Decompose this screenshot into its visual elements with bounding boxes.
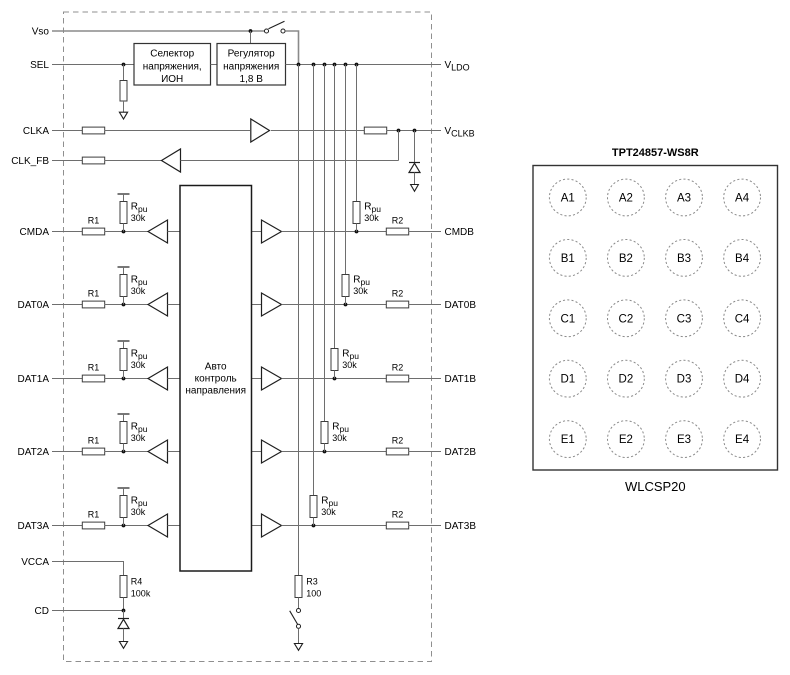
wire SEL lead [52, 64, 134, 66]
junction VLDO rail DAT2B [323, 63, 327, 67]
wire DAT2B line [282, 451, 387, 453]
ball E1 [549, 421, 586, 458]
svg-text:R1: R1 [88, 289, 100, 299]
wire switch S1 to VLDO rail [285, 31, 298, 64]
wire DAT0A to driver [105, 304, 149, 306]
svg-text:R2: R2 [392, 216, 404, 226]
svg-text:E2: E2 [619, 434, 633, 446]
resistor Rpu 30k (DAT2B) [321, 422, 328, 444]
resistor Rpu 30k (DAT3A) [120, 496, 127, 518]
switch S2 contact top [296, 608, 300, 612]
wire resistor to pin VCLKB [387, 130, 442, 132]
supply bar Rpu (DAT0A) [118, 266, 130, 268]
wire CLKA lead [52, 130, 83, 132]
switch S1 blade [269, 21, 285, 29]
wire driver to block (DAT0A) [168, 304, 181, 306]
svg-text:R3: R3 [306, 577, 318, 587]
driver B DAT1B [262, 367, 282, 390]
switch S2 contact bottom [296, 624, 300, 628]
svg-text:C3: C3 [677, 313, 692, 325]
svg-text:100k: 100k [131, 588, 151, 598]
wire Rpu to DAT1A [123, 371, 125, 379]
junction VLDO rail DAT1B [333, 63, 337, 67]
svg-text:100: 100 [306, 588, 321, 598]
wire Vso lead [52, 30, 266, 32]
ground arrow (clamp) [411, 185, 419, 192]
svg-text:DAT3A: DAT3A [18, 521, 50, 532]
wire DAT1B line [282, 378, 387, 380]
wire block to driver (DAT0B) [252, 304, 262, 306]
wire block to driver (DAT1B) [252, 378, 262, 380]
svg-text:VCCA: VCCA [21, 557, 49, 568]
svg-text:D1: D1 [560, 374, 575, 386]
driver A DAT3A [148, 514, 168, 537]
svg-text:VLDO: VLDO [445, 60, 470, 72]
driver B DAT3B [262, 514, 282, 537]
resistor Rpu 30k (CMDB) [353, 202, 360, 224]
wire block to driver (DAT2B) [252, 451, 262, 453]
svg-text:30k: 30k [332, 433, 347, 443]
svg-text:напряжения: напряжения [223, 62, 279, 73]
IC boundary (dashed) [64, 12, 432, 662]
wire DAT1A lead [52, 378, 83, 380]
ball C4 [724, 300, 761, 337]
junction DAT2B pull-up [323, 450, 327, 454]
ball D4 [724, 360, 761, 397]
package outline WLCSP [533, 166, 778, 471]
supply bar Rpu (DAT2A) [118, 413, 130, 415]
wire CMDA lead [52, 231, 83, 233]
resistor R2 (DAT0B) [386, 301, 408, 308]
svg-text:A4: A4 [735, 193, 750, 205]
svg-text:B2: B2 [619, 253, 633, 265]
resistor R1 (DAT3A) [82, 522, 104, 529]
svg-text:DAT3B: DAT3B [445, 521, 477, 532]
junction CLKB clamp [413, 129, 417, 133]
ball B3 [666, 240, 703, 277]
ground arrow (discharge) [294, 644, 302, 651]
ball E3 [666, 421, 703, 458]
wire block to driver (DAT3B) [252, 525, 262, 527]
svg-text:B1: B1 [561, 253, 575, 265]
wire DAT3A lead [52, 525, 83, 527]
svg-text:DAT1B: DAT1B [445, 374, 477, 385]
resistor R3 100 [295, 576, 302, 598]
ball B4 [724, 240, 761, 277]
svg-text:R2: R2 [392, 436, 404, 446]
wire pull-up rail DAT3B [313, 65, 315, 496]
wire CLK_FB to inverter [105, 160, 162, 162]
junction CLKB feedback [397, 129, 401, 133]
ball D3 [666, 360, 703, 397]
junction CMDA pull-up [122, 230, 126, 234]
wire clamp stub [414, 131, 416, 163]
wire driver to block (DAT1A) [168, 378, 181, 380]
svg-text:B4: B4 [735, 253, 750, 265]
svg-text:SEL: SEL [30, 60, 49, 71]
svg-text:30k: 30k [364, 213, 379, 223]
svg-text:R1: R1 [88, 510, 100, 520]
wire VCCA lead [52, 562, 124, 576]
wire DAT1A to driver [105, 378, 149, 380]
svg-text:30k: 30k [131, 286, 146, 296]
driver B DAT0B [262, 293, 282, 316]
wire CLK_FB lead [52, 160, 83, 162]
wire DAT3B line [282, 525, 387, 527]
resistor R2 (CMDB) [386, 228, 408, 235]
resistor Rpu 30k (DAT3B) [310, 496, 317, 518]
svg-text:WLCSP20: WLCSP20 [625, 479, 686, 494]
ball D2 [608, 360, 645, 397]
junction DAT1A pull-up [122, 377, 126, 381]
wire CMDB line [282, 231, 387, 233]
resistor Rpu 30k (DAT0A) [120, 275, 127, 297]
resistor Rpu 30k (CMDA) [120, 202, 127, 224]
svg-text:ИОН: ИОН [161, 74, 183, 85]
svg-text:C1: C1 [560, 313, 575, 325]
svg-text:направления: направления [185, 386, 246, 397]
resistor SEL pulldown [120, 81, 127, 102]
wire R3 to switch [298, 598, 300, 609]
junction VLDO rail CMDB [355, 63, 359, 67]
ball A4 [724, 179, 761, 216]
switch S1 contact left [264, 29, 268, 33]
wire DAT0B line [282, 304, 387, 306]
svg-text:Селектор: Селектор [150, 49, 194, 60]
wire discharge rail [298, 65, 300, 576]
resistor R2 (DAT1B) [386, 375, 408, 382]
svg-text:A2: A2 [619, 193, 633, 205]
wire buffer to resistor [271, 130, 364, 132]
wire R2 to pin (DAT3B) [409, 525, 442, 527]
wire driver to block (DAT3A) [168, 525, 181, 527]
svg-text:30k: 30k [321, 507, 336, 517]
resistor R2 (DAT2B) [386, 448, 408, 455]
ball D1 [549, 360, 586, 397]
svg-text:D2: D2 [619, 374, 634, 386]
wire pull-up rail DAT0B [345, 65, 347, 275]
svg-text:E3: E3 [677, 434, 691, 446]
wire Rpu to CMDB [356, 224, 358, 232]
svg-text:R4: R4 [131, 577, 143, 587]
wire switch to arrow [298, 629, 300, 644]
wire supply to Rpu (DAT3A) [123, 488, 125, 496]
junction DAT2A pull-up [122, 450, 126, 454]
supply bar Rpu (DAT3A) [118, 487, 130, 489]
svg-text:30k: 30k [131, 433, 146, 443]
svg-text:R1: R1 [88, 216, 100, 226]
wire DAT2A lead [52, 451, 83, 453]
supply bar Rpu (CMDA) [118, 193, 130, 195]
svg-text:R2: R2 [392, 363, 404, 373]
wire pull-up rail DAT1B [334, 65, 336, 349]
wire clamp to arrow [414, 173, 416, 185]
junction VLDO rail discharge [297, 63, 301, 67]
driver B CMDB [262, 220, 282, 243]
svg-text:30k: 30k [353, 286, 368, 296]
svg-text:A3: A3 [677, 193, 691, 205]
svg-text:Авто: Авто [205, 362, 227, 373]
wire pull-up rail CMDB [356, 65, 358, 202]
svg-text:TPT24857-WS8R: TPT24857-WS8R [612, 147, 699, 159]
wire regulator input stub [250, 31, 252, 44]
svg-text:DAT0A: DAT0A [18, 300, 50, 311]
driver A CMDA [148, 220, 168, 243]
wire Rpu to DAT3B [313, 518, 315, 526]
wire diode to arrow [123, 629, 125, 642]
ball E2 [608, 421, 645, 458]
svg-text:1,8 В: 1,8 В [240, 74, 264, 85]
svg-text:Vso: Vso [32, 27, 50, 38]
junction VLDO rail DAT0B [344, 63, 348, 67]
wire CLKA to buffer [105, 130, 251, 132]
svg-text:R2: R2 [392, 510, 404, 520]
svg-text:E4: E4 [735, 434, 750, 446]
driver A DAT1A [148, 367, 168, 390]
svg-text:R1: R1 [88, 436, 100, 446]
svg-text:A1: A1 [561, 193, 575, 205]
svg-text:CLKA: CLKA [23, 126, 49, 137]
wire Rpu to DAT1B [334, 371, 336, 379]
wire driver to block (DAT2A) [168, 451, 181, 453]
junction DAT0B pull-up [344, 303, 348, 307]
buffer U4 feedback driver [162, 149, 181, 172]
junction CMDB pull-up [355, 230, 359, 234]
supply bar Rpu (DAT1A) [118, 340, 130, 342]
resistor R1 (DAT1A) [82, 375, 104, 382]
wire block to driver (CMDB) [252, 231, 262, 233]
block U1 voltage selector / reference [134, 44, 211, 86]
driver B DAT2B [262, 440, 282, 463]
wire CD lead [52, 610, 124, 612]
resistor R1 (CMDA) [82, 228, 104, 235]
wire Rpu to DAT3A [123, 518, 125, 526]
ground arrow (SEL pulldown) [119, 112, 127, 119]
wire Rpu to DAT2B [324, 444, 326, 452]
svg-text:R1: R1 [88, 363, 100, 373]
svg-text:Регулятор: Регулятор [228, 49, 275, 60]
ball A2 [608, 179, 645, 216]
wire DAT3A to driver [105, 525, 149, 527]
junction DAT1B pull-up [333, 377, 337, 381]
buffer U3 clock driver [251, 119, 270, 142]
svg-text:B3: B3 [677, 253, 691, 265]
wire CMDA to driver [105, 231, 149, 233]
svg-text:R2: R2 [392, 289, 404, 299]
svg-text:30k: 30k [131, 507, 146, 517]
wire Rpu to DAT2A [123, 444, 125, 452]
ground arrow (CD clamp) [119, 642, 127, 649]
wire SEL pulldown stub [123, 65, 125, 81]
resistor Rpu 30k (DAT0B) [342, 275, 349, 297]
svg-text:C4: C4 [735, 313, 750, 325]
junction DAT3A pull-up [122, 524, 126, 528]
svg-text:DAT0B: DAT0B [445, 300, 477, 311]
ball C3 [666, 300, 703, 337]
block U2 LDO regulator 1.8V [217, 44, 286, 86]
switch S2 blade [290, 611, 298, 625]
wire R4 to CD [123, 598, 125, 611]
wire Rpu to DAT0B [345, 297, 347, 305]
diode D2 CD clamp [118, 619, 129, 629]
wire supply to Rpu (DAT2A) [123, 414, 125, 422]
resistor R2 (DAT3B) [386, 522, 408, 529]
ball E4 [724, 421, 761, 458]
wire R2 to pin (CMDB) [409, 231, 442, 233]
junction Vso / regulator input [249, 29, 253, 33]
resistor R1 (DAT0A) [82, 301, 104, 308]
wire supply to Rpu (CMDA) [123, 194, 125, 202]
svg-text:30k: 30k [342, 360, 357, 370]
wire R2 to pin (DAT1B) [409, 378, 442, 380]
svg-text:напряжения,: напряжения, [143, 62, 202, 73]
ball B1 [549, 240, 586, 277]
driver A DAT0A [148, 293, 168, 316]
switch S1 contact right [281, 29, 285, 33]
wire pull-up rail DAT2B [324, 65, 326, 422]
ball A1 [549, 179, 586, 216]
wire CLKB feedback drop [398, 131, 400, 161]
junction DAT3B pull-up [312, 524, 316, 528]
wire Rpu to DAT0A [123, 297, 125, 305]
svg-text:CLK_FB: CLK_FB [11, 156, 49, 167]
junction CD [122, 609, 126, 613]
resistor VCLKB series [364, 127, 386, 134]
svg-text:E1: E1 [561, 434, 575, 446]
block U5 auto direction control [180, 186, 252, 572]
ball C1 [549, 300, 586, 337]
resistor Rpu 30k (DAT1A) [120, 349, 127, 371]
wire DAT0A lead [52, 304, 83, 306]
resistor Rpu 30k (DAT2A) [120, 422, 127, 444]
wire selector to regulator [211, 64, 218, 66]
diode D1 clamp [409, 163, 420, 173]
wire supply to Rpu (DAT1A) [123, 341, 125, 349]
svg-text:30k: 30k [131, 213, 146, 223]
junction DAT0A pull-up [122, 303, 126, 307]
wire supply to Rpu (DAT0A) [123, 267, 125, 275]
wire CD to diode [123, 611, 125, 619]
svg-text:D3: D3 [677, 374, 692, 386]
ball C2 [608, 300, 645, 337]
wire DAT2A to driver [105, 451, 149, 453]
wire VLDO output [286, 64, 442, 66]
resistor R1 (DAT2A) [82, 448, 104, 455]
driver A DAT2A [148, 440, 168, 463]
junction VLDO rail DAT3B [312, 63, 316, 67]
ball B2 [608, 240, 645, 277]
resistor Rpu 30k (DAT1B) [331, 349, 338, 371]
svg-text:CMDB: CMDB [445, 227, 475, 238]
svg-text:DAT2B: DAT2B [445, 447, 477, 458]
resistor CLK_FB series [82, 157, 104, 164]
svg-text:VCLKB: VCLKB [445, 126, 475, 138]
svg-text:30k: 30k [131, 360, 146, 370]
junction SEL pulldown [122, 63, 126, 67]
wire Rpu to CMDA [123, 224, 125, 232]
wire R2 to pin (DAT2B) [409, 451, 442, 453]
svg-text:CMDA: CMDA [20, 227, 50, 238]
wire pulldown to arrow [123, 101, 125, 112]
resistor CLKA series [82, 127, 104, 134]
wire feedback return [181, 160, 399, 162]
svg-text:DAT2A: DAT2A [18, 447, 50, 458]
svg-text:CD: CD [35, 606, 49, 617]
svg-text:DAT1A: DAT1A [18, 374, 50, 385]
wire R2 to pin (DAT0B) [409, 304, 442, 306]
svg-text:C2: C2 [619, 313, 634, 325]
svg-text:D4: D4 [735, 374, 750, 386]
wire driver to block (CMDA) [168, 231, 181, 233]
resistor R4 100k [120, 576, 127, 598]
svg-text:контроль: контроль [195, 374, 237, 385]
ball A3 [666, 179, 703, 216]
